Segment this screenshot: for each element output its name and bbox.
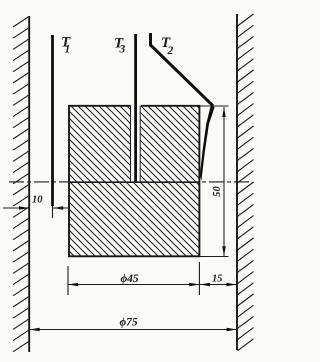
- T1 extension line: [52, 206, 54, 218]
- specimen lower hatch: [70, 183, 200, 257]
- dim 15 right arrowhead: [226, 283, 236, 286]
- top extension line: [199, 105, 228, 107]
- thermocouple T1 probe: [51, 35, 54, 206]
- svg-text:ϕ75: ϕ75: [120, 317, 138, 329]
- centerline (axis): [9, 181, 252, 183]
- dim 15 left arrowhead: [200, 283, 210, 286]
- svg-text:3: 3: [119, 44, 126, 56]
- svg-text:1: 1: [65, 44, 71, 56]
- dim 10 right arrowhead: [53, 206, 63, 209]
- disc interface line: [69, 181, 200, 183]
- phi45 left extension line: [67, 266, 69, 295]
- T3 slot right wall: [139, 106, 141, 183]
- dimension 15: [199, 284, 237, 286]
- thermocouple T3 probe: [134, 34, 137, 182]
- left wall hatching: [13, 17, 29, 352]
- T3 slot left wall: [130, 106, 132, 183]
- dimension 10: [3, 207, 70, 209]
- svg-text:15: 15: [212, 274, 223, 285]
- phi45 right extension line: [198, 262, 200, 295]
- right wall hatching: [238, 14, 254, 351]
- dimension phi45: [68, 284, 199, 286]
- dim 50 line: [223, 107, 225, 256]
- right wall inner face: [236, 14, 238, 350]
- bottom extension line: [200, 256, 229, 258]
- specimen upper-left hatch: [70, 107, 131, 183]
- thermocouple T2 probe: [151, 33, 214, 106]
- dim 50 top arrowhead: [222, 107, 225, 117]
- phi45 left arrowhead: [68, 283, 78, 286]
- specimen outline: [69, 106, 199, 256]
- svg-text:2: 2: [167, 45, 174, 57]
- phi75 left arrowhead: [30, 328, 40, 331]
- phi75 right arrowhead: [227, 328, 237, 331]
- svg-text:10: 10: [32, 195, 43, 206]
- dimension phi75: [29, 329, 237, 331]
- left wall inner face: [28, 16, 30, 352]
- dim 10 left arrowhead: [19, 206, 29, 209]
- dim 50 bottom arrowhead: [222, 246, 225, 256]
- svg-text:ϕ45: ϕ45: [121, 273, 139, 285]
- svg-text:50: 50: [212, 186, 223, 197]
- phi45 right arrowhead: [189, 283, 199, 286]
- T2 probe leg along specimen side: [200, 105, 215, 181]
- specimen upper-right hatch: [140, 107, 199, 183]
